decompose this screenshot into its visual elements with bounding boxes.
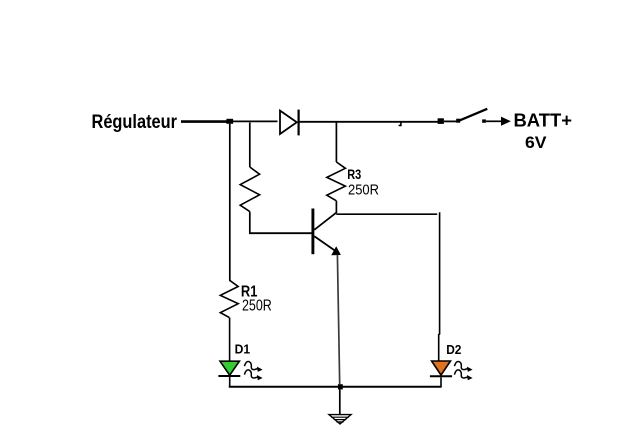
- svg-text:Régulateur: Régulateur: [92, 111, 178, 133]
- svg-text:BATT+: BATT+: [514, 110, 573, 131]
- svg-text:D1: D1: [235, 343, 251, 357]
- svg-text:D2: D2: [446, 343, 461, 357]
- svg-text:R3: R3: [347, 166, 361, 182]
- svg-text:250R: 250R: [348, 183, 379, 199]
- svg-text:250R: 250R: [242, 297, 272, 314]
- svg-text:6V: 6V: [525, 134, 547, 152]
